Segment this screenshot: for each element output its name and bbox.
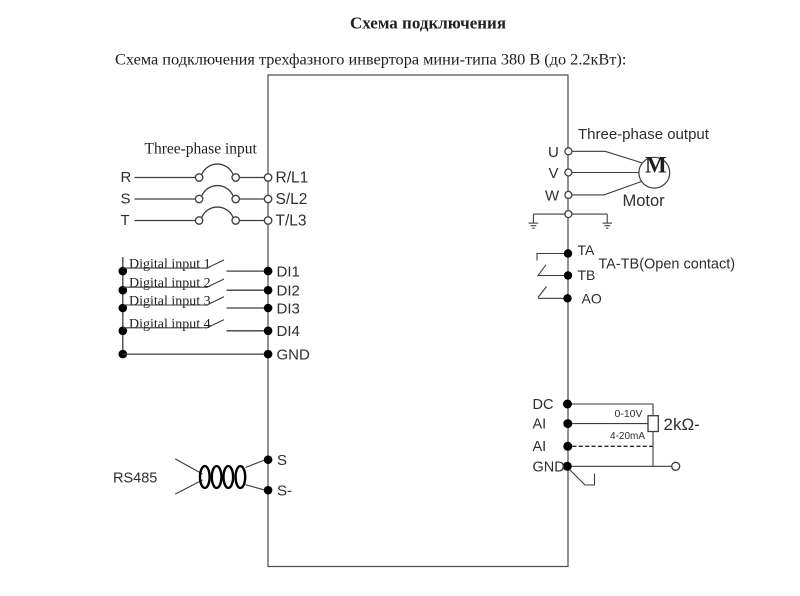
svg-text:Digital input 1: Digital input 1	[129, 257, 211, 272]
wire AO	[538, 297, 564, 299]
svg-text:Схема подключения: Схема подключения	[350, 14, 506, 33]
terminal open circle GND end	[672, 462, 680, 470]
node DI1 bus	[119, 267, 128, 276]
resistor R1 2k	[648, 416, 658, 432]
wire breaker S to terminal	[239, 198, 264, 200]
svg-text:R: R	[121, 169, 132, 186]
svg-text:DI3: DI3	[277, 301, 300, 318]
svg-text:DI2: DI2	[277, 283, 300, 300]
svg-text:S: S	[121, 191, 131, 208]
wire T to breaker	[135, 220, 196, 222]
svg-text:T/L3: T/L3	[276, 213, 307, 230]
relay lever TA-TB	[538, 265, 547, 276]
wire TB	[538, 275, 565, 277]
wire DC	[572, 404, 653, 416]
svg-text:S: S	[277, 452, 287, 469]
switch lever DI4	[206, 320, 224, 329]
wire GND right	[572, 465, 672, 467]
svg-text:W: W	[545, 188, 560, 205]
terminal V	[565, 169, 572, 176]
svg-text:AI: AI	[533, 417, 547, 433]
svg-text:Motor: Motor	[623, 192, 666, 210]
svg-text:GND: GND	[533, 460, 565, 476]
wire GND left	[123, 353, 264, 355]
node DI3 bus	[119, 304, 128, 313]
node GND bus left	[119, 350, 128, 359]
wire S to breaker	[135, 198, 196, 200]
svg-text:Digital input 4: Digital input 4	[129, 317, 211, 332]
breaker contact T	[195, 207, 239, 224]
wire resistor to GND	[652, 432, 654, 467]
inverter box U1	[268, 75, 568, 567]
svg-text:Three-phase output: Three-phase output	[578, 126, 710, 143]
svg-text:RS485: RS485	[113, 471, 157, 487]
wire V to motor	[572, 172, 639, 174]
terminal S	[264, 455, 273, 464]
wire PE right	[572, 213, 607, 215]
wire DI2 left	[123, 286, 207, 288]
svg-text:Digital input 2: Digital input 2	[129, 276, 211, 291]
terminal DI4	[264, 327, 273, 336]
wire DI3 right	[227, 307, 265, 309]
node PE	[565, 211, 572, 218]
breaker contact S	[195, 186, 239, 203]
ground left	[529, 214, 539, 228]
terminal GND left	[264, 350, 273, 359]
terminal T/L3	[264, 217, 271, 224]
svg-text:Three-phase input: Three-phase input	[145, 141, 258, 158]
terminal GND right	[563, 462, 572, 471]
terminal AI	[563, 419, 572, 428]
svg-text:Digital input 3: Digital input 3	[129, 294, 211, 309]
terminal TB	[564, 271, 572, 279]
svg-text:4-20mA: 4-20mA	[610, 431, 645, 442]
svg-text:Схема подключения трехфазного: Схема подключения трехфазного инвертора …	[115, 50, 626, 69]
switch lever DI3	[206, 297, 224, 306]
wire AI to resistor	[572, 423, 648, 425]
wire breaker R to terminal	[239, 177, 264, 179]
terminal AI2	[563, 442, 572, 451]
wire breaker T to terminal	[239, 220, 264, 222]
svg-text:V: V	[549, 165, 559, 182]
svg-text:2kΩ-: 2kΩ-	[664, 415, 700, 434]
relay lever AO	[538, 287, 547, 298]
probe hook below GND	[570, 470, 595, 486]
terminal DC	[563, 400, 572, 409]
inductor coil RS485	[200, 466, 245, 488]
terminal S/L2	[264, 195, 271, 202]
motor M1	[639, 157, 670, 188]
svg-text:S-: S-	[277, 483, 292, 500]
svg-text:DC: DC	[533, 397, 554, 413]
wire TA with stub	[537, 254, 564, 261]
svg-text:DI1: DI1	[277, 264, 300, 281]
terminal DI1	[264, 267, 273, 276]
svg-text:GND: GND	[277, 347, 311, 364]
digital input bus	[122, 257, 124, 354]
wire PE left	[533, 213, 565, 215]
svg-text:DI4: DI4	[277, 323, 300, 340]
svg-text:TB: TB	[578, 267, 596, 283]
breaker contact R	[195, 164, 239, 181]
terminal S-	[264, 486, 273, 495]
wire DI1 left	[123, 267, 207, 269]
wire coil to S-	[246, 485, 265, 490]
svg-text:TA: TA	[578, 242, 596, 258]
svg-text:AI: AI	[533, 439, 547, 455]
wire W to motor	[572, 182, 642, 195]
terminal U	[565, 148, 572, 155]
node DI2 bus	[119, 286, 128, 295]
wire RS485 upper left	[175, 459, 202, 474]
wire DI2 right	[227, 289, 265, 291]
svg-text:T: T	[121, 212, 130, 229]
wire AI2 dashed	[572, 445, 653, 447]
wire RS485 lower left	[175, 480, 202, 494]
terminal DI2	[264, 286, 273, 295]
svg-text:S/L2: S/L2	[276, 191, 308, 208]
wire DI4 left	[123, 327, 207, 329]
node DI4 bus	[119, 327, 128, 336]
svg-text:AO: AO	[582, 291, 602, 307]
wire coil to S	[246, 460, 265, 467]
svg-text:M: M	[645, 153, 667, 178]
terminal TA	[564, 249, 572, 257]
wire DI1 right	[227, 270, 265, 272]
wire DI4 right	[227, 330, 265, 332]
terminal AO	[563, 294, 571, 302]
svg-text:TA-TB(Open contact): TA-TB(Open contact)	[598, 257, 735, 273]
svg-text:0-10V: 0-10V	[615, 408, 643, 420]
terminal DI3	[264, 304, 273, 313]
wire U to motor	[572, 151, 642, 162]
ground right	[602, 214, 612, 228]
terminal W	[565, 191, 572, 198]
svg-text:R/L1: R/L1	[276, 170, 309, 187]
wire DI3 left	[123, 304, 207, 306]
switch lever DI2	[206, 279, 224, 288]
switch lever DI1	[206, 260, 224, 269]
wire R to breaker	[135, 177, 196, 179]
svg-text:U: U	[548, 144, 559, 161]
terminal R/L1	[264, 174, 271, 181]
